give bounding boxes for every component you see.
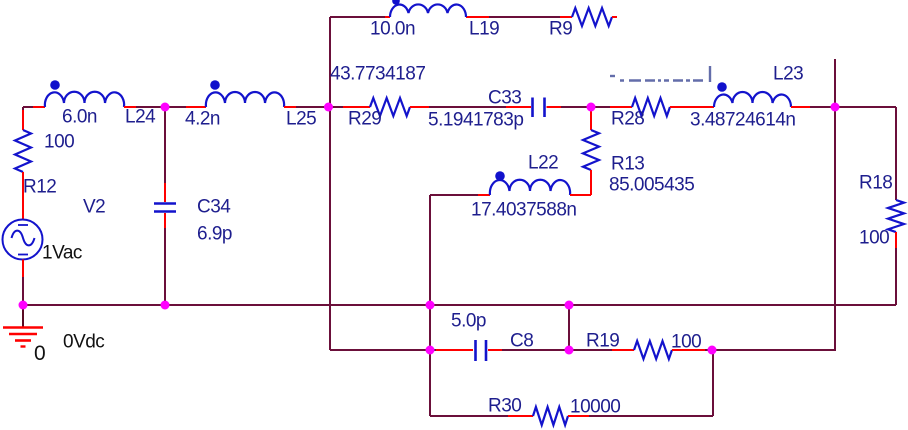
pin lead L19 right bbox=[466, 16, 489, 18]
voltage source V2 bbox=[3, 220, 43, 260]
svg-text:10.0n: 10.0n bbox=[370, 19, 415, 40]
svg-text:4.2n: 4.2n bbox=[185, 109, 220, 130]
pin lead R12 top bbox=[22, 110, 24, 130]
svg-text:3.48724614n: 3.48724614n bbox=[690, 110, 795, 131]
wire main row from R12 corner to L24 bbox=[23, 106, 33, 108]
wire vertical x=713 R19 junction down to R30 row bbox=[712, 350, 714, 416]
inductor L25 bbox=[206, 92, 284, 107]
pin lead R30 right bbox=[568, 415, 589, 417]
resistor R28 bbox=[632, 98, 670, 116]
pin lead R9 right stub bbox=[612, 16, 617, 18]
pin lead L23 right bbox=[791, 106, 810, 108]
wire main row between L24 and L25 bbox=[136, 106, 186, 108]
wire V2 bottom to ground bus bbox=[22, 277, 24, 305]
pin-1 dot of L24 bbox=[50, 80, 60, 90]
svg-text:5.0p: 5.0p bbox=[451, 311, 486, 332]
pin lead R29 left bbox=[343, 106, 370, 108]
svg-text:1Vac: 1Vac bbox=[42, 243, 82, 264]
svg-text:L23: L23 bbox=[773, 64, 803, 85]
svg-text:C33: C33 bbox=[488, 88, 521, 109]
wire R30 row right bbox=[589, 415, 713, 417]
capacitor C34 bbox=[154, 204, 176, 212]
svg-text:17.4037588n: 17.4037588n bbox=[471, 200, 576, 221]
pin-1 dot of L23 bbox=[717, 82, 727, 92]
wire main row between R29 and C33 bbox=[429, 106, 506, 108]
pin lead R13 top bbox=[590, 107, 592, 130]
svg-text:R29: R29 bbox=[348, 109, 381, 130]
wire vertical x=330 from top row to C8 row bbox=[329, 17, 331, 350]
pin lead R28 right bbox=[670, 106, 691, 108]
pin lead C33 left bbox=[506, 106, 531, 108]
wire R19 row to x=835 vertical bbox=[705, 349, 836, 351]
svg-text:0: 0 bbox=[34, 342, 45, 365]
pin lead L25 right bbox=[284, 106, 296, 108]
svg-text:V2: V2 bbox=[83, 197, 105, 218]
resistor R12 bbox=[15, 130, 31, 172]
wire vertical R12 branch top bbox=[22, 107, 24, 110]
resistor R18 bbox=[888, 200, 904, 232]
wire ground bus bbox=[23, 304, 896, 306]
svg-text:L24: L24 bbox=[125, 107, 156, 128]
wire R30 row left bbox=[430, 415, 508, 417]
wire stub above junction x=835 bbox=[834, 59, 836, 107]
junction node C8 row at x=430 bbox=[426, 346, 435, 355]
svg-text:C34: C34 bbox=[197, 197, 231, 218]
junction node L24-L25-C34 bbox=[161, 103, 170, 112]
wire L22 row left bbox=[430, 194, 478, 196]
capacitor C33 bbox=[533, 98, 545, 118]
svg-text:43.7734187: 43.7734187 bbox=[330, 64, 425, 85]
pin lead L19 left bbox=[385, 16, 390, 18]
pin lead C34 top bbox=[164, 183, 166, 202]
inductor L22 bbox=[490, 180, 570, 195]
junction node L25-R29 at x=330 vertical bbox=[324, 103, 333, 112]
wire vertical R18 branch upper bbox=[895, 107, 897, 200]
pin-1 dot of L22 bbox=[495, 171, 505, 181]
wire main row between L25 and R29 bbox=[296, 106, 343, 108]
svg-text:100: 100 bbox=[859, 228, 889, 249]
pin-1 dot of L19 bbox=[392, 0, 400, 5]
pin lead R28 left bbox=[610, 106, 632, 108]
junction node ground at C34 bbox=[161, 301, 170, 310]
svg-text:10000: 10000 bbox=[570, 397, 620, 418]
svg-text:R18: R18 bbox=[859, 173, 892, 194]
pin lead R13 bottom bbox=[590, 170, 592, 195]
junction node C33-R28-R13 bbox=[587, 103, 596, 112]
svg-text:R12: R12 bbox=[23, 177, 56, 198]
svg-text:L25: L25 bbox=[286, 109, 316, 130]
wire vertical x=835 from main row down to R19 row bbox=[834, 107, 836, 350]
pin lead L22 right bbox=[570, 194, 591, 196]
wire vertical C34 branch lower bbox=[164, 228, 166, 305]
pin lead R19 right bbox=[672, 349, 705, 351]
pin lead L24 right bbox=[124, 106, 136, 108]
inductor L23 bbox=[714, 92, 791, 107]
resistor R30 bbox=[533, 407, 568, 425]
pin lead C33 right bbox=[547, 106, 562, 108]
wire top row between L19 and R9 bbox=[489, 16, 560, 18]
svg-text:R9: R9 bbox=[549, 19, 572, 40]
pin lead C8 left bbox=[436, 349, 473, 351]
capacitor C8 bbox=[476, 340, 487, 361]
svg-text:R19: R19 bbox=[586, 331, 619, 352]
wire vertical x=430 from L22 row down to R30 row bbox=[429, 195, 431, 416]
pin lead R12 bottom to V2 top bbox=[22, 172, 24, 220]
junction node ground at x=430 bbox=[426, 301, 435, 310]
svg-text:5.1941783p: 5.1941783p bbox=[428, 110, 523, 131]
svg-text:85.005435: 85.005435 bbox=[609, 175, 694, 196]
pin lead C34 bottom bbox=[164, 213, 166, 228]
svg-text:L22: L22 bbox=[528, 153, 558, 174]
svg-text:6.9p: 6.9p bbox=[197, 224, 232, 245]
wire C8 row left bbox=[330, 349, 436, 351]
resistor R19 bbox=[634, 341, 672, 359]
wire main row from L23 to right corner bbox=[810, 106, 896, 108]
pin lead R18 bottom bbox=[895, 232, 897, 248]
pin lead R19 left bbox=[612, 349, 634, 351]
wire C8 row between C8 and R19 bbox=[502, 349, 612, 351]
wire vertical x=569 bus to C8 row bbox=[568, 305, 570, 350]
svg-text:0Vdc: 0Vdc bbox=[63, 332, 104, 353]
pin lead V2 bottom bbox=[22, 260, 24, 278]
svg-text:L19: L19 bbox=[469, 19, 499, 40]
wire main row between C33 and R28 bbox=[561, 106, 610, 108]
pin lead L24 left bbox=[33, 106, 45, 108]
pin lead R30 left bbox=[508, 415, 533, 417]
resistor R9 bbox=[572, 8, 612, 26]
pin-1 dot of L25 bbox=[210, 80, 220, 90]
junction node C8 row at x=569 bbox=[565, 346, 574, 355]
inductor L24 bbox=[45, 92, 124, 107]
pin lead C8 right bbox=[488, 349, 502, 351]
resistor R13 bbox=[583, 130, 599, 170]
wire vertical R18 branch lower bbox=[895, 248, 897, 305]
resistor R29 bbox=[370, 98, 410, 116]
pin lead R29 right bbox=[410, 106, 429, 108]
svg-text:R13: R13 bbox=[611, 154, 644, 175]
svg-text:R30: R30 bbox=[488, 396, 521, 417]
svg-text:C8: C8 bbox=[510, 331, 533, 352]
svg-text:R28: R28 bbox=[611, 109, 644, 130]
wire vertical C34 branch upper bbox=[164, 107, 166, 183]
svg-text:100: 100 bbox=[44, 132, 74, 153]
pin lead L22 left bbox=[478, 194, 490, 196]
pin lead L25 left bbox=[186, 106, 206, 108]
junction node R19 right bbox=[708, 346, 717, 355]
junction node L23 right at x=835 bbox=[831, 103, 840, 112]
pin lead R9 left bbox=[560, 16, 572, 18]
wire top row left segment bbox=[330, 16, 385, 18]
inductor L19 bbox=[390, 4, 466, 17]
junction node ground at x=569 bbox=[565, 301, 574, 310]
pin lead L23 left bbox=[691, 106, 714, 108]
ground symbol 0 bbox=[3, 305, 43, 347]
junction node ground at V2 bbox=[19, 301, 28, 310]
svg-text:6.0n: 6.0n bbox=[62, 107, 97, 128]
faded value label above R28 bbox=[610, 66, 710, 82]
